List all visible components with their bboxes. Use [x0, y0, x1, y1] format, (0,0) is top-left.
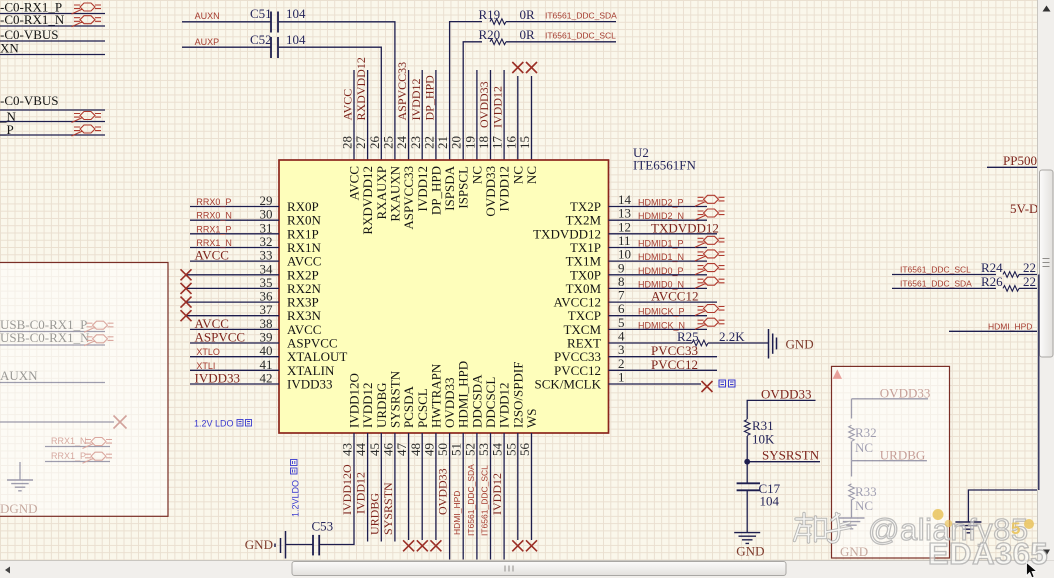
wire — [1019, 274, 1039, 276]
wire pin 18 up — [490, 70, 492, 160]
svg-text:RRX1_N: RRX1_N — [51, 436, 87, 446]
svg-text:RRX0_N: RRX0_N — [196, 211, 232, 221]
svg-text:-C0-VBUS: -C0-VBUS — [0, 93, 59, 108]
wire — [182, 21, 271, 23]
ground GND — [734, 533, 760, 544]
svg-text:SYSRSTN: SYSRSTN — [762, 448, 820, 463]
wire pin 8 — [609, 287, 708, 289]
node junction — [744, 459, 750, 465]
svg-text:GND: GND — [245, 537, 273, 552]
svg-text:AUXN: AUXN — [195, 11, 220, 21]
resistor R31 10K — [744, 420, 750, 436]
capacitor C51 104 — [270, 12, 272, 33]
svg-text:1: 1 — [618, 370, 625, 385]
svg-text:AUXN: AUXN — [0, 368, 38, 383]
svg-text:IT6561_DDC_SCL: IT6561_DDC_SCL — [480, 465, 490, 536]
wire — [190, 260, 279, 262]
ground GND (right-facing) — [768, 329, 770, 359]
resistor R33 NC (faded) — [849, 484, 855, 500]
diff pair symbol — [72, 112, 102, 123]
wire pin 2 — [609, 369, 718, 371]
wire pin 4 — [609, 342, 693, 344]
wire — [746, 490, 748, 532]
svg-text:HDMI_HPD: HDMI_HPD — [988, 322, 1032, 332]
svg-text:-C0-RX1_N: -C0-RX1_N — [0, 12, 65, 27]
resistor R26 221 — [1003, 286, 1019, 292]
wire — [506, 21, 616, 23]
no-connect pin 49 — [430, 540, 441, 551]
wire pin 24 up — [408, 70, 410, 160]
wire pin 5 — [609, 328, 708, 330]
wire to pin 43 — [320, 433, 354, 545]
svg-text:R26: R26 — [981, 274, 1003, 289]
svg-text:DP_HPD: DP_HPD — [422, 75, 436, 121]
diff pair symbol — [72, 3, 102, 14]
ground GND — [955, 522, 981, 533]
wire pin 12 — [609, 233, 718, 235]
no-connect pin 56 — [526, 540, 537, 551]
svg-text:C53: C53 — [312, 519, 334, 534]
svg-text:AVCC: AVCC — [195, 248, 229, 263]
svg-text:OVDD33: OVDD33 — [477, 81, 491, 128]
svg-text:PVCC12: PVCC12 — [651, 357, 698, 372]
svg-text:RRX1_N: RRX1_N — [196, 238, 232, 248]
diff pair symbol — [695, 236, 725, 247]
diff pair symbol — [695, 195, 725, 206]
svg-text:IVDD12: IVDD12 — [409, 79, 423, 121]
wire pin 52 — [476, 433, 478, 560]
wire pin 55 — [517, 433, 519, 540]
svg-text:HDMID0_P: HDMID0_P — [638, 266, 684, 276]
wire — [1019, 287, 1039, 289]
wire — [190, 219, 279, 221]
svg-text:IVDD12: IVDD12 — [354, 472, 368, 514]
diff pair symbol — [72, 125, 102, 136]
svg-text:RRX0_P: RRX0_P — [196, 197, 231, 207]
svg-text:TXDVDD12: TXDVDD12 — [651, 220, 719, 235]
wire pin 6 — [609, 315, 708, 317]
diff pair symbol — [695, 305, 725, 316]
svg-text:IT6561_DDC_SDA: IT6561_DDC_SDA — [545, 11, 617, 21]
wire pin 45 — [380, 433, 382, 542]
svg-text:AVCC: AVCC — [341, 89, 355, 121]
wire pin20 up — [463, 42, 482, 160]
wire pin 11 — [609, 247, 708, 249]
capacitor C17 104 — [737, 482, 760, 484]
svg-text:R32: R32 — [855, 425, 877, 440]
svg-text:ASPVCC33: ASPVCC33 — [395, 62, 409, 121]
wire — [286, 544, 314, 546]
svg-text:1.2V LDO: 1.2V LDO — [194, 419, 234, 429]
wire pin 54 — [503, 433, 505, 560]
svg-text:SYSRSTN: SYSRSTN — [381, 482, 395, 535]
wire pin 44 — [367, 433, 369, 542]
svg-text:104: 104 — [286, 6, 306, 21]
wire to ground — [968, 490, 1038, 522]
ground DGND (faded) — [19, 462, 21, 480]
wire pin 50 — [449, 433, 451, 560]
op-amp U1 body: IC U2 ITE6561FN — [279, 160, 609, 433]
svg-text:URDBG: URDBG — [367, 493, 381, 535]
svg-text:IVDD33: IVDD33 — [195, 371, 241, 386]
svg-text:WS: WS — [524, 409, 539, 429]
wire — [190, 247, 279, 249]
wire pin 14 — [609, 206, 708, 208]
svg-text:NC: NC — [855, 498, 873, 513]
wire pin 56 — [531, 433, 533, 540]
no-connect pin 55 — [512, 540, 523, 551]
svg-text:IT6561_DDC_SDA: IT6561_DDC_SDA — [466, 464, 476, 536]
wire pin 53 — [490, 433, 492, 560]
diff pair symbol — [72, 16, 102, 27]
svg-text:104: 104 — [286, 32, 306, 47]
svg-text:15: 15 — [517, 136, 532, 149]
svg-text:IT6561_DDC_SCL: IT6561_DDC_SCL — [545, 31, 616, 41]
wire pin 1 with no-connect — [609, 383, 702, 385]
svg-text:USB-C0-RX1_N: USB-C0-RX1_N — [0, 330, 90, 345]
svg-text:56: 56 — [517, 443, 532, 457]
wire pin 19 up — [476, 70, 478, 160]
svg-text:IVDD12: IVDD12 — [491, 86, 505, 128]
marker triangle — [833, 369, 842, 379]
svg-text:HDMI_HPD: HDMI_HPD — [452, 491, 462, 535]
svg-text:GND: GND — [786, 337, 814, 352]
faded region left (dimmed schematic area) — [0, 263, 168, 517]
wire to pin 26 — [279, 47, 381, 160]
wire — [182, 46, 271, 48]
diff pair symbol — [695, 250, 725, 261]
resistor R25 2.2K — [692, 340, 708, 346]
wire — [190, 206, 279, 208]
diff pair symbol — [695, 318, 725, 329]
svg-text:IVDD33: IVDD33 — [287, 377, 333, 392]
wire pin 51 — [462, 433, 464, 560]
wire with no-connect — [187, 315, 279, 317]
wire to pin 25 — [279, 22, 395, 160]
diff pair symbol — [695, 209, 725, 220]
capacitor C53 — [312, 535, 314, 556]
ground GND (faded) — [839, 518, 865, 529]
vertical scrollbar — [1038, 0, 1054, 561]
svg-text:RXDVDD12: RXDVDD12 — [354, 57, 368, 120]
wire pin 17 up — [503, 70, 505, 160]
wire — [190, 369, 279, 371]
svg-text:OVDD33: OVDD33 — [436, 468, 450, 515]
svg-text:IT6561_DDC_SDA: IT6561_DDC_SDA — [900, 279, 972, 289]
wire pin 23 up — [421, 70, 423, 160]
wire pin 3 — [609, 356, 718, 358]
svg-text:AUXP: AUXP — [195, 37, 220, 47]
svg-text:R20: R20 — [479, 27, 501, 42]
svg-text:R24: R24 — [981, 260, 1003, 275]
svg-text:R25: R25 — [677, 329, 699, 344]
svg-text:IVDD12: IVDD12 — [490, 473, 504, 515]
wire pin 9 — [609, 274, 708, 276]
wire (faded rail) — [851, 399, 853, 419]
wire — [851, 500, 853, 519]
wire with no-connect — [187, 301, 279, 303]
svg-text:GND: GND — [736, 544, 764, 559]
svg-text:R19: R19 — [479, 7, 501, 22]
faded region right (dimmed schematic area) — [832, 366, 950, 558]
wire pin 28 up — [353, 70, 355, 160]
svg-text:XN: XN — [0, 41, 19, 56]
svg-text:HDMICK_P: HDMICK_P — [638, 307, 685, 317]
wire — [190, 328, 279, 330]
wire pin 47 — [408, 433, 410, 540]
svg-text:RRX1_P: RRX1_P — [196, 224, 231, 234]
svg-text:2.2K: 2.2K — [719, 329, 745, 344]
svg-text:104: 104 — [760, 494, 780, 509]
svg-text:ITE6561FN: ITE6561FN — [633, 158, 696, 173]
svg-text:ASPVCC: ASPVCC — [195, 330, 246, 345]
watermark dots — [933, 509, 944, 520]
mouse cursor — [1027, 563, 1037, 578]
svg-text:DGND: DGND — [0, 501, 38, 516]
wire pin 7 — [609, 301, 718, 303]
wire — [892, 287, 996, 289]
svg-text:IVDD12O: IVDD12O — [340, 464, 354, 515]
diff pair symbol — [695, 264, 725, 275]
no-connect pin 16 — [517, 76, 519, 160]
no-connect pin 15 — [531, 76, 533, 160]
resistor R24 221 — [1003, 272, 1019, 278]
diff pair symbol — [695, 277, 725, 288]
wire with no-connect — [187, 274, 279, 276]
svg-text:NC: NC — [855, 440, 873, 455]
wire pin21 up — [450, 22, 482, 160]
svg-text:XTLO: XTLO — [196, 347, 220, 357]
watermark zhihu logo — [795, 514, 826, 543]
wire — [190, 383, 279, 385]
svg-text:0R: 0R — [520, 27, 536, 42]
svg-text:R33: R33 — [855, 484, 877, 499]
svg-text:RRX1_P: RRX1_P — [51, 451, 86, 461]
wire pin 27 up — [367, 70, 369, 160]
wire — [949, 330, 1039, 332]
svg-text:10K: 10K — [752, 432, 775, 447]
wire with no-connect (faded) — [0, 421, 114, 423]
resistor R20 0R — [490, 39, 506, 45]
wire pin 22 up — [435, 70, 437, 160]
wire pin 48 — [421, 433, 423, 540]
svg-text:C51: C51 — [250, 6, 272, 21]
svg-text:IT6561_DDC_SCL: IT6561_DDC_SCL — [900, 265, 971, 275]
wire — [892, 274, 996, 276]
svg-text:XTLI: XTLI — [196, 361, 215, 371]
svg-text:SCK/MCLK: SCK/MCLK — [535, 377, 602, 392]
wire — [506, 41, 616, 43]
wire — [190, 233, 279, 235]
wire — [746, 436, 748, 483]
svg-text:HDMID2_P: HDMID2_P — [638, 198, 684, 208]
no-connect pin 47 — [403, 540, 414, 551]
svg-text:NC: NC — [524, 166, 539, 184]
wire — [708, 342, 769, 344]
wire pin 46 — [394, 433, 396, 542]
horizontal scrollbar — [0, 561, 1054, 578]
svg-text:HDMID1_N: HDMID1_N — [638, 252, 684, 262]
wire — [851, 442, 853, 461]
svg-text:C52: C52 — [250, 32, 272, 47]
resistor R32 NC (faded) — [849, 425, 855, 441]
svg-text:HDMID1_P: HDMID1_P — [638, 239, 684, 249]
svg-text:1.2VLDO: 1.2VLDO — [291, 480, 301, 517]
svg-text:AVCC12: AVCC12 — [651, 289, 698, 304]
wire vertical bus — [1038, 275, 1040, 491]
no-connect pin 48 — [417, 540, 428, 551]
svg-text:GND: GND — [840, 544, 868, 559]
wire — [851, 461, 853, 477]
svg-text:42: 42 — [260, 371, 273, 386]
wire pin 10 — [609, 260, 708, 262]
wire with no-connect — [187, 287, 279, 289]
capacitor C52 104 — [270, 37, 272, 58]
wire — [190, 342, 279, 344]
svg-text:0R: 0R — [520, 7, 536, 22]
wire pin 49 — [435, 433, 437, 540]
resistor R19 0R — [490, 19, 506, 25]
wire — [190, 356, 279, 358]
wire pin 13 — [609, 219, 708, 221]
svg-text:OVDD33: OVDD33 — [761, 387, 812, 402]
wire — [746, 400, 748, 419]
wire vertical bus (over scrollbar edge) — [1038, 275, 1040, 491]
annotation (blue) — [719, 380, 735, 387]
